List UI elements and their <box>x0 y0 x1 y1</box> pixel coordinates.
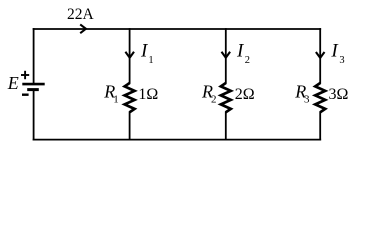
wire branch 1 lower lead <box>129 112 131 139</box>
svg-text:3Ω: 3Ω <box>329 86 349 103</box>
wire branch 2 lower lead <box>225 112 227 139</box>
wire left lower (battery bottom lead) <box>33 90 35 140</box>
resistor R3 zigzag <box>315 83 325 112</box>
battery minus sign <box>22 93 29 95</box>
wire top horizontal <box>34 28 321 30</box>
resistor R1 zigzag <box>125 83 135 112</box>
battery E top plate <box>22 83 44 86</box>
current arrow I2 head <box>222 52 231 58</box>
svg-text:2: 2 <box>211 94 217 106</box>
resistor R2 zigzag <box>221 83 231 112</box>
battery E bottom plate <box>27 88 39 91</box>
svg-text:2: 2 <box>245 55 250 66</box>
svg-text:1: 1 <box>113 94 119 106</box>
svg-text:3: 3 <box>304 94 310 106</box>
current arrow 22A head <box>80 24 86 33</box>
battery plus sign <box>21 71 29 79</box>
svg-text:3: 3 <box>339 55 344 66</box>
svg-text:2Ω: 2Ω <box>235 86 255 103</box>
svg-text:E: E <box>7 73 19 93</box>
current arrow I1 head <box>125 52 134 58</box>
wire right lower lead (branch 3) <box>319 112 321 139</box>
wire bottom horizontal <box>34 139 321 141</box>
wire left upper (battery top lead) <box>33 29 35 84</box>
svg-text:1: 1 <box>148 55 153 66</box>
svg-text:1Ω: 1Ω <box>138 86 158 103</box>
wire branch 2 upper lead <box>225 29 227 83</box>
svg-text:22A: 22A <box>67 6 95 23</box>
wire right upper lead (branch 3) <box>319 29 321 83</box>
wire branch 1 upper lead <box>129 29 131 83</box>
current arrow I3 head <box>316 52 325 58</box>
